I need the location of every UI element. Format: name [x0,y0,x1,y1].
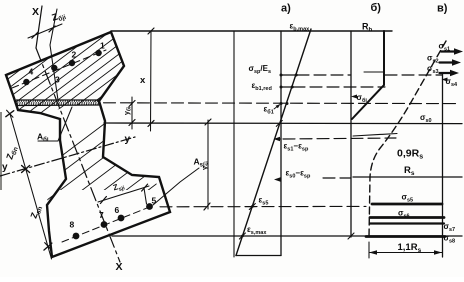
rebar 6 [118,215,125,222]
flange hatching [0,30,203,130]
svg-text:σs3: σs3 [427,64,439,75]
svg-text:σs0: σs0 [420,113,432,124]
sigma_s6 bar [370,216,444,219]
svg-text:в): в) [437,3,448,15]
svg-text:Zбn: Zбn [4,145,19,161]
rebar 5 [146,203,153,210]
top reference line [111,30,392,32]
sigma_s1 arrow [441,48,463,54]
Rs level line [353,176,462,178]
svg-text:Zsn: Zsn [28,204,44,220]
Z_bji dimension [28,24,62,38]
dashed row sigma_sp level [297,74,351,76]
svg-text:σs8: σs8 [444,234,456,245]
svg-text:Rb: Rb [362,22,373,34]
svg-text:εs1−εsp: εs1−εsp [284,142,309,153]
0.9Rs level line [353,134,397,137]
svg-text:X: X [116,261,123,273]
strain diagram bottom close [236,255,281,257]
diagram a) zero axis [280,31,282,256]
rebar 3 [51,65,57,71]
arrow eps_s1 [274,137,282,141]
X-X axis [36,6,42,48]
svg-text:y: y [125,134,131,145]
svg-text:4: 4 [29,67,34,77]
svg-text:εs5: εs5 [259,196,269,207]
sigma_s8 bar [366,235,445,238]
sigma_s2 arrow [440,59,462,65]
svg-text:X: X [32,6,39,18]
svg-text:σs4: σs4 [446,77,459,88]
dashed row eps_s1 level [283,138,396,139]
diagram a) axis line [233,31,235,257]
rebar 7 [101,221,108,228]
sigma_s7 bar [370,222,444,224]
1.1Rs dimension [369,242,442,258]
rebar 4 [23,79,29,85]
svg-text:а): а) [281,3,291,15]
steel stress dashed curve [369,41,446,237]
label Z_sn [28,204,44,220]
left long dimension line Z_bn / Z_sn [6,110,52,259]
stress block inner line [364,71,384,73]
y_bi dimension line [129,97,135,129]
section outline [6,32,170,257]
tick on neutral axis at slant [276,120,282,126]
svg-text:εb,max: εb,max [290,22,311,33]
sigma_bi arrow [351,95,357,99]
svg-text:Rs: Rs [404,165,415,177]
svg-text:εs,max: εs,max [247,225,267,236]
svg-text:εb1,red: εb1,red [252,81,272,92]
svg-text:σs7: σs7 [444,222,456,233]
svg-text:2: 2 [72,50,77,60]
eps_b1 leader arrow [274,106,279,110]
label sigma_s4 [442,78,448,82]
concrete strip A_bi (dense hatch band) [17,100,100,106]
svg-text:8: 8 [70,220,75,230]
sigma_s5 bar [372,203,442,206]
label y_bi [124,106,133,115]
svg-text:y: y [2,162,8,173]
y_si dimension line [204,119,211,210]
svg-text:σs2: σs2 [427,54,439,65]
svg-text:3: 3 [55,75,60,85]
label y_si [200,161,211,170]
x depth dimension line [148,28,154,131]
svg-text:εs0−εsp: εs0−εsp [286,169,311,180]
A_sj leader [153,168,199,205]
dashed row bar5 level [160,205,366,207]
diagram b) axis [350,31,352,237]
rebar 2 [69,60,75,66]
svg-text:σsp/Es: σsp/Es [249,64,272,75]
concrete stress block [352,31,384,119]
svg-text:Zбji: Zбji [51,9,68,25]
diagram v) axis [442,74,444,257]
svg-text:x: x [140,75,146,86]
dashed row eps_s0 level [323,177,351,179]
svg-text:σбi: σбi [357,93,368,104]
strain slant line [236,29,311,256]
bottom solid row line [112,235,462,237]
dashed row at strip level [104,102,458,105]
ticks on strain line [239,204,255,240]
paper edge shadow [0,112,2,190]
web and bottom flange hatching [0,100,268,270]
arrow eps_s0 [274,177,281,181]
svg-text:б): б) [371,2,382,14]
svg-text:Zsji: Zsji [112,180,126,194]
label Z_bn [4,145,19,161]
sigma_s3 arrow [440,70,460,76]
neutral axis solid line [104,122,462,125]
svg-text:1,1Rs: 1,1Rs [398,242,422,254]
rebar 8 [73,233,80,240]
label Z_sji [112,180,126,194]
dashed row eps_b1red level [293,86,385,88]
aux line parallel (bar row extension) [50,9,58,100]
svg-text:εб1: εб1 [264,105,274,116]
A_bi leader [38,107,72,141]
svg-text:1: 1 [100,41,105,51]
svg-text:5: 5 [152,196,157,206]
svg-text:yбi: yбi [124,106,133,115]
svg-text:Aбi: Aбi [37,132,49,144]
svg-text:0,9Rs: 0,9Rs [397,148,423,161]
rebar 1 [95,50,101,56]
label Z_bji [51,9,68,25]
bottom bar row line [62,206,152,242]
top bar row line [12,50,106,88]
Y-Y axis [0,137,135,176]
svg-text:σs5: σs5 [402,193,414,204]
svg-text:7: 7 [99,210,104,220]
svg-text:6: 6 [115,205,120,215]
Z_sji dimension [98,184,149,204]
